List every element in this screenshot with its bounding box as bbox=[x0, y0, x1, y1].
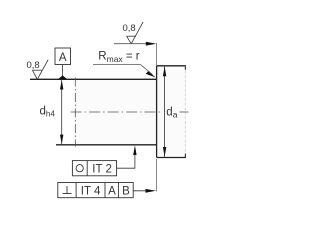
circularity symbol bbox=[76, 165, 83, 172]
shaft seat bottom edge (with extension to left) bbox=[56, 144, 157, 146]
svg-text:0,8: 0,8 bbox=[123, 23, 136, 34]
IT2 arrow bbox=[133, 145, 136, 155]
d_a bottom arrow bbox=[163, 147, 166, 157]
roughness 2 arrow bbox=[146, 42, 157, 46]
shoulder abutment face bbox=[156, 66, 158, 158]
extension line down from abutment face bbox=[156, 159, 158, 192]
extension line up from abutment face bbox=[156, 43, 158, 66]
shoulder bottom edge bbox=[157, 157, 186, 159]
dimension d_h4 line bbox=[61, 79, 63, 145]
horizontal centerline bbox=[71, 111, 161, 113]
shoulder body fill bbox=[157, 66, 186, 158]
svg-text:B: B bbox=[122, 185, 130, 197]
datum A triangle bbox=[58, 75, 67, 79]
tolerance frame IT4 A B bbox=[58, 183, 133, 198]
R_max leader diagonal bbox=[141, 65, 153, 75]
svg-text:0,8: 0,8 bbox=[27, 60, 40, 71]
svg-text:A: A bbox=[59, 52, 67, 64]
roughness 2 leader line bbox=[114, 43, 150, 45]
R_max leader line bbox=[93, 64, 141, 66]
svg-text:Rmax = r: Rmax = r bbox=[98, 51, 139, 64]
IT4 arrow bbox=[146, 189, 157, 193]
R_max arrow bbox=[146, 71, 156, 77]
IT2 leader bbox=[117, 150, 135, 168]
shoulder top edge bbox=[157, 65, 186, 67]
dimension d_a line bbox=[164, 66, 166, 158]
svg-text:dh4: dh4 bbox=[40, 106, 56, 119]
perpendicularity symbol bbox=[63, 186, 72, 194]
vertical chain line (seat boundary) bbox=[74, 78, 76, 147]
shoulder right break edge bbox=[184, 66, 186, 158]
datum A box bbox=[55, 48, 71, 65]
d_h4 bottom arrow bbox=[60, 135, 63, 145]
tolerance frame IT2 bbox=[72, 161, 116, 176]
datum A leader bbox=[62, 65, 64, 77]
svg-text:IT 2: IT 2 bbox=[92, 163, 112, 175]
d_h4 top arrow bbox=[60, 80, 63, 90]
IT4 leader bbox=[133, 190, 150, 192]
d_a top arrow bbox=[163, 67, 166, 77]
svg-text:A: A bbox=[108, 185, 116, 197]
svg-text:IT 4: IT 4 bbox=[81, 185, 101, 197]
shaft seat body fill bbox=[75, 79, 156, 145]
shaft seat top edge (with extension to left) bbox=[30, 78, 157, 80]
